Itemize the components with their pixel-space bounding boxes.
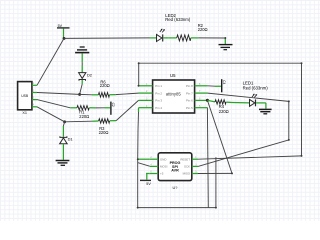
wire U5 pin1 riser to top rail [139,63,302,86]
resistor R3 [92,119,116,135]
wire right edge to PROG RESET [198,156,302,159]
svg-text:C2: C2 [111,103,115,107]
wire PROG MOSI to GND riser [138,163,150,167]
wire U5 pin8 to net bar C4 [208,85,221,88]
LED LED2 [150,29,169,42]
node junction 5V net [63,37,66,40]
svg-text:Pin 8: Pin 8 [186,84,193,88]
wire GND rect left edge [137,159,139,207]
ground (below LED1) [259,109,272,113]
wire R6 to IC pin2 [116,93,139,95]
IC U5 attiny85 [153,73,195,113]
wire pin6 junction to R4 [207,100,215,102]
wire R3 to IC pin3 [116,100,138,120]
svg-text:D2: D2 [87,72,92,77]
wire LED1 to ground [256,103,266,109]
svg-text:AVR: AVR [171,169,179,173]
ground (inverted, above D2) [75,47,89,62]
svg-text:Red (633nm): Red (633nm) [243,86,269,91]
LED LED2 label [165,13,191,22]
resistor R6 [92,93,116,98]
svg-text:U5: U5 [170,73,176,78]
wire USB pin2 to D- junction to R6 [37,93,92,95]
svg-text:Pin 2: Pin 2 [155,91,162,95]
svg-text:U?: U? [173,185,179,190]
ground (top right) [219,45,233,50]
wire USB pin4 to D1 junction [37,107,65,122]
svg-text:220Ω: 220Ω [99,130,109,135]
wire R1 to net bar C2 [96,107,110,109]
resistor R2 label [198,23,208,32]
svg-text:Pin 6: Pin 6 [186,99,193,103]
svg-text:MISO: MISO [183,172,191,176]
wire top rail right edge down [301,63,303,156]
svg-text:X1: X1 [22,111,27,115]
node junction U5 pin6 / LED1 net [206,99,209,102]
svg-text:C4: C4 [222,80,226,84]
svg-text:5V: 5V [146,182,151,186]
svg-text:Red (633nm): Red (633nm) [165,17,191,22]
wire D2 to D- net junction [80,84,83,94]
pin stubs PROG right [192,156,198,173]
svg-text:GND: GND [160,157,166,161]
net terminal C4 (vertical bar) [222,79,226,92]
svg-text:220Ω: 220Ω [219,109,229,114]
svg-text:5V: 5V [58,24,63,28]
wire U5 pin5 to bottom rail [206,108,209,208]
wire U5 pin4 GND riser [138,108,150,160]
power symbol 5V (bottom, at PROG +5) [140,173,151,186]
wire R2 to ground [199,38,226,44]
svg-text:Pin 5: Pin 5 [186,106,193,110]
svg-text:D1: D1 [68,136,73,141]
svg-text:Pin 4: Pin 4 [155,106,162,110]
wire bendpoint dots [137,37,303,209]
net terminal C2 (vertical bar) [111,102,115,115]
pin stubs U5 left [139,83,153,108]
pin stubs USB 1-4 [32,82,37,107]
wire ground to D2 [81,62,83,65]
svg-text:220Ω: 220Ω [198,27,208,32]
resistor R6 label [100,79,110,88]
pin stubs U5 right [195,83,208,108]
wire U5 pin7 to SCK (via right side) [198,93,289,166]
wire 5V junction to USB pin1 [37,38,64,85]
wire GND rect right edge [215,157,217,207]
diode D2 (zener, pointing down) [79,72,92,84]
connector U1 PROG SPI AVR [158,153,192,190]
wire D1 junction to R3 [65,120,93,123]
ground (below D1) [56,161,70,166]
svg-text:USB: USB [21,94,29,98]
resistor R4 [215,100,232,114]
LED LED1 [232,94,257,107]
svg-text:220Ω: 220Ω [100,83,110,88]
svg-text:SCK: SCK [184,165,190,169]
svg-text:Pin 7: Pin 7 [186,91,193,95]
wire pin6 junction to MISO [198,101,232,174]
pin stubs PROG left [150,156,159,173]
svg-text:RESET: RESET [180,157,190,161]
resistor R2 [168,35,199,41]
svg-text:Pin 3: Pin 3 [155,99,162,103]
wire D1 to ground [62,144,64,160]
wire GND rect bottom edge [138,207,216,209]
connector X1 USB [18,82,32,115]
node junction GND/D1 [63,120,66,123]
svg-text:+5: +5 [160,172,164,176]
wire D1 junction down to D1 [63,122,64,137]
svg-text:Pin 1: Pin 1 [155,84,162,88]
svg-text:attiny85: attiny85 [166,91,182,96]
node junction D- net [78,93,81,96]
resistor R1 [70,106,96,119]
wire 5V junction to LED2 anode [64,37,150,40]
svg-text:220Ω: 220Ω [79,114,89,119]
svg-text:MOSI: MOSI [160,165,168,169]
power symbol 5V (top left) [57,24,70,39]
wire USB pin3 to R1 [37,100,70,108]
diode D1 (zener, pointing up) [60,136,73,144]
LED LED1 label [243,81,269,91]
